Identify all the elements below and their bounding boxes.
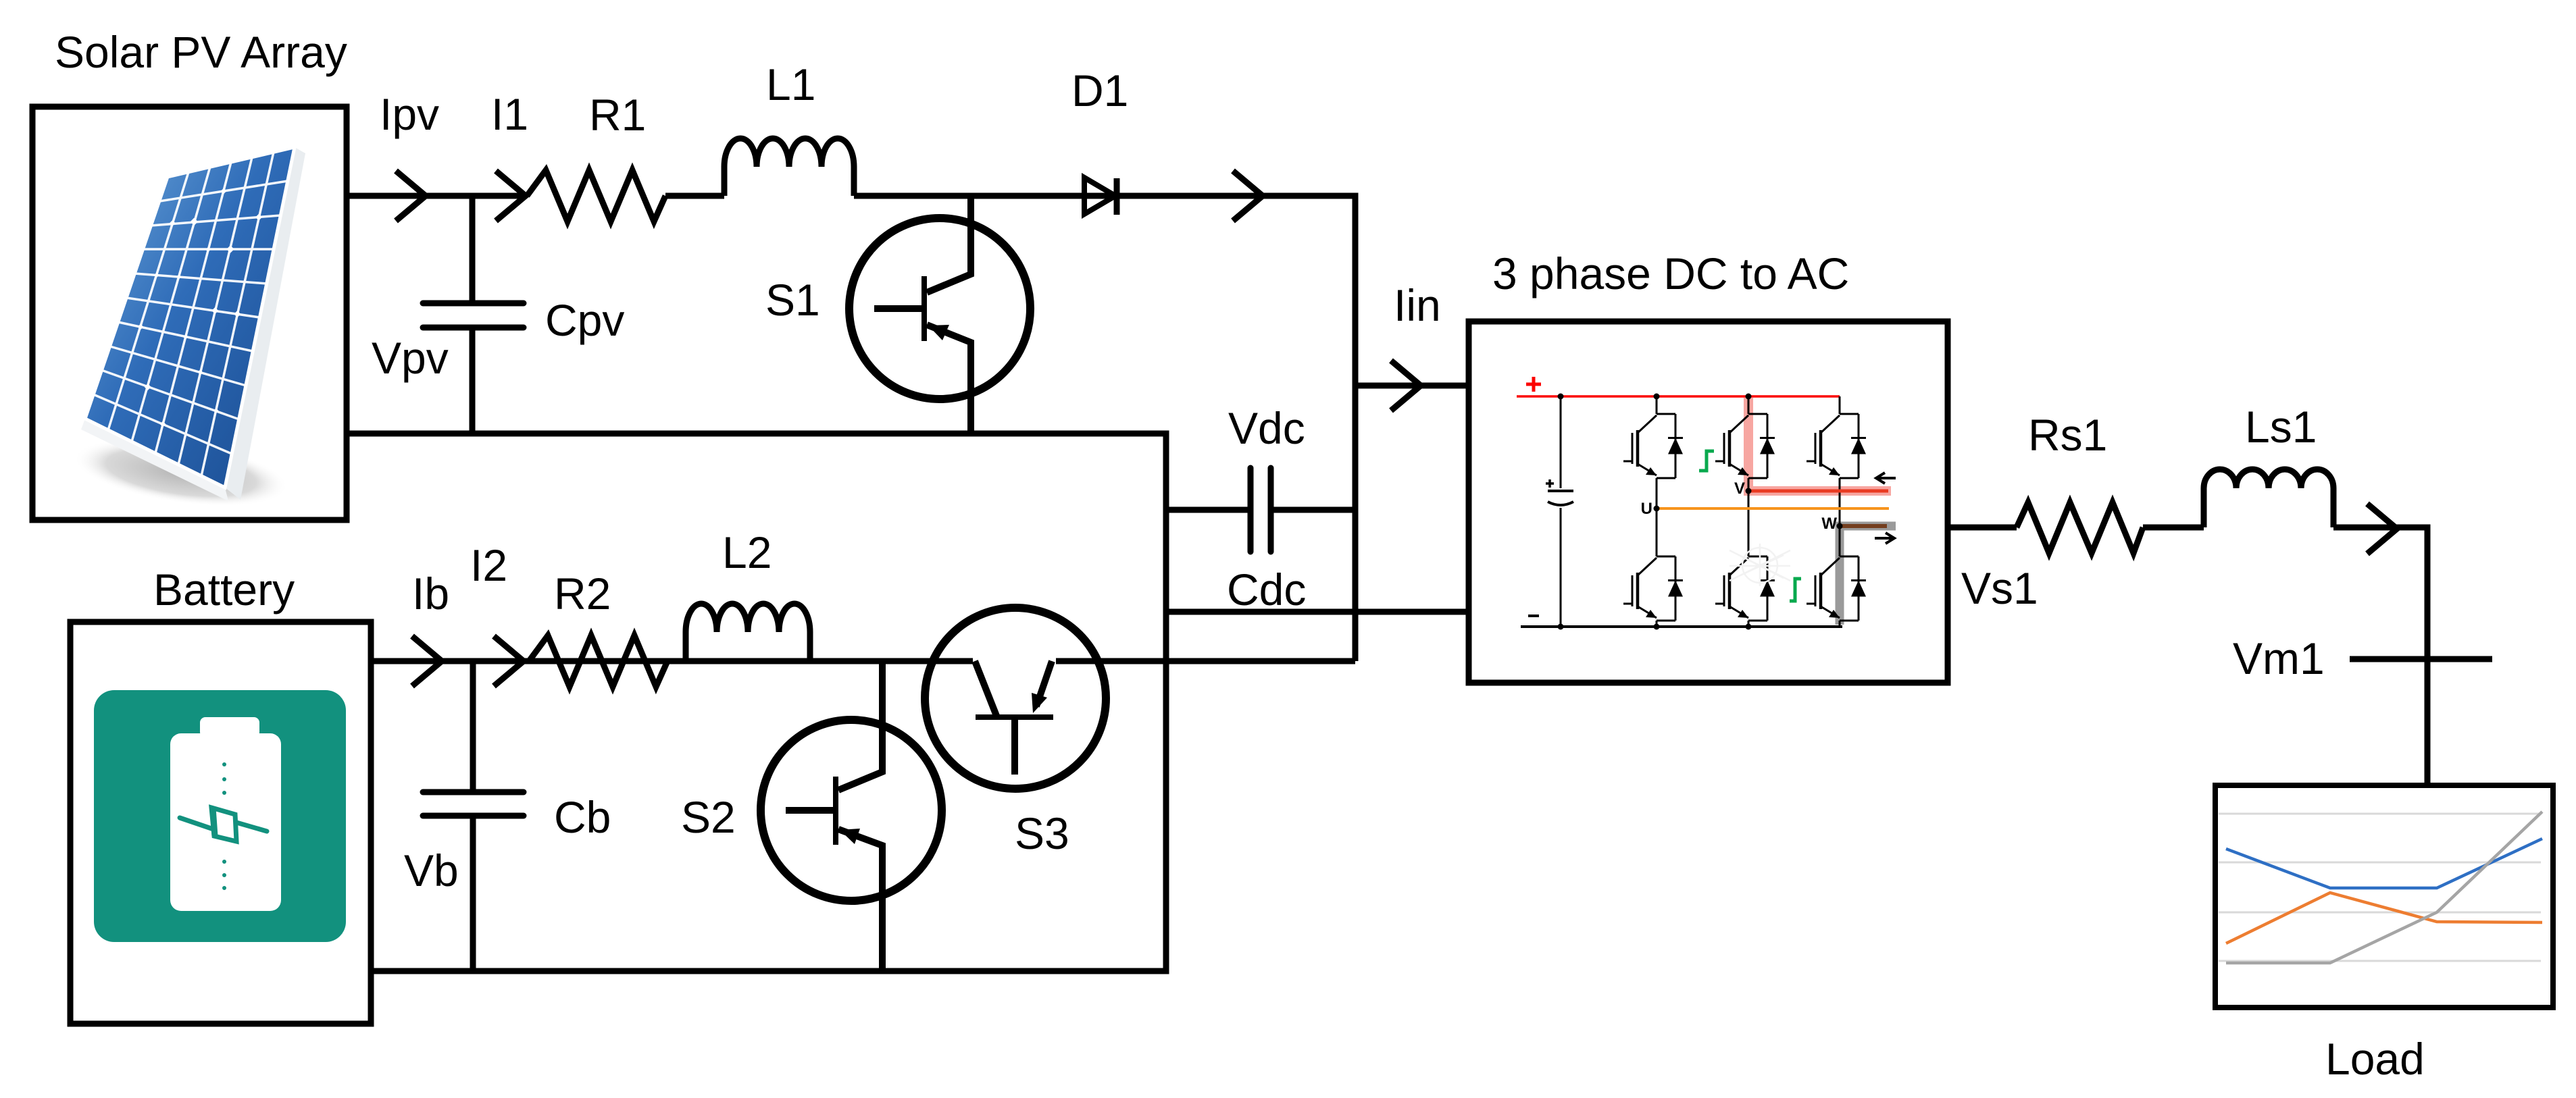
resistor R1 — [527, 170, 665, 221]
capacitor Cdc plates — [1251, 468, 1271, 552]
wire: dc negative to inverter — [1166, 609, 1466, 615]
arrow after D1 — [1233, 171, 1263, 221]
arrow Ib — [412, 636, 442, 686]
wire Rs1 to Ls1 — [2143, 525, 2204, 531]
inverter: arrow in — [1876, 473, 1896, 483]
resistor R2 — [529, 635, 667, 687]
svg-text:Vm1: Vm1 — [2233, 633, 2325, 683]
svg-text:L1: L1 — [766, 59, 815, 109]
wire: inverter output to Rs1 — [1949, 525, 2017, 531]
solar panel photo — [70, 147, 305, 518]
inverter: node dots — [1558, 394, 1843, 630]
arrow Iin — [1391, 361, 1421, 411]
inductor L2 — [686, 604, 810, 661]
svg-text:D1: D1 — [1071, 66, 1128, 115]
Solar PV Array box — [32, 107, 347, 520]
svg-text:Cdc: Cdc — [1227, 565, 1306, 615]
svg-text:S2: S2 — [681, 792, 736, 842]
capacitor Cpv — [470, 196, 476, 300]
resistor Rs1 — [2017, 502, 2143, 553]
inverter: W phase line — [1840, 524, 1887, 528]
svg-text:Vpv: Vpv — [372, 333, 449, 383]
svg-text:Rs1: Rs1 — [2028, 410, 2107, 460]
svg-text:I2: I2 — [470, 540, 507, 590]
svg-text:Solar PV Array: Solar PV Array — [55, 27, 347, 77]
inverter: plus sign — [1526, 377, 1541, 392]
Battery box — [70, 622, 371, 1024]
load chart orange line — [2226, 893, 2542, 943]
diode D1 — [1084, 178, 1115, 214]
transistor S1 — [849, 196, 1030, 434]
bus: PV bottom / S1 emitter rail — [345, 434, 1166, 971]
svg-text:Cpv: Cpv — [545, 295, 624, 345]
inverter: arrow out — [1875, 533, 1894, 544]
wire: PV top output — [345, 193, 527, 199]
inverter: IGBT modules — [1657, 414, 1675, 478]
wire: S3 to dc corner — [1056, 658, 1355, 664]
load chart gridlines — [2219, 814, 2541, 961]
svg-text:Vs1: Vs1 — [1961, 563, 2038, 613]
svg-text:W: W — [1821, 515, 1837, 533]
svg-text:Vdc: Vdc — [1228, 403, 1305, 453]
inverter: V-phase pink highlight — [1748, 398, 1891, 491]
arrow I2 — [494, 636, 524, 686]
svg-text:L2: L2 — [722, 527, 772, 577]
svg-text:S1: S1 — [765, 275, 820, 325]
arrow I1 — [496, 171, 526, 221]
inverter: faint watermark — [1729, 544, 1790, 586]
svg-text:R1: R1 — [589, 90, 646, 140]
svg-text:S3: S3 — [1015, 808, 1069, 858]
svg-text:Ib: Ib — [412, 569, 449, 619]
inverter: red positive rail — [1517, 395, 1840, 398]
transistor S2 — [761, 661, 942, 971]
wire Ls1 to load — [2333, 527, 2427, 785]
capacitor Cb — [470, 661, 476, 789]
svg-text:Ipv: Ipv — [380, 89, 439, 139]
load chart gray line — [2226, 812, 2542, 963]
svg-text:Battery: Battery — [153, 565, 295, 615]
svg-text:Vb: Vb — [404, 845, 459, 895]
wire: Iin to inverter — [1355, 383, 1466, 389]
inverter: V phase line — [1748, 490, 1888, 493]
svg-text:U: U — [1641, 500, 1652, 518]
inverter: legs — [1656, 396, 1658, 627]
load chart blue line — [2226, 839, 2542, 888]
inverter: minus sign — [1528, 615, 1539, 617]
svg-text:I1: I1 — [491, 89, 528, 139]
wire R1 to L1 — [665, 193, 724, 199]
inverter: bottom rail — [1521, 625, 1842, 628]
Vm1 measure line — [2350, 656, 2492, 662]
transistor S3 — [925, 608, 1106, 789]
svg-text:Cb: Cb — [554, 792, 611, 842]
svg-text:V: V — [1734, 479, 1745, 498]
wire: battery output — [371, 658, 973, 664]
arrow to load — [2367, 504, 2397, 554]
wire L1 to corner, down to battery bus — [854, 196, 1355, 661]
svg-text:3 phase DC to AC: 3 phase DC to AC — [1492, 249, 1849, 298]
svg-text:Ls1: Ls1 — [2245, 402, 2317, 452]
battery icon — [94, 690, 346, 942]
inverter: green gate pulses — [1699, 451, 1714, 471]
inductor Ls1 — [2204, 469, 2333, 527]
inverter: dc link capacitor — [1560, 396, 1562, 627]
inverter: W-phase gray highlight — [1840, 526, 1896, 625]
capacitor Cdc wires — [1166, 507, 1355, 513]
arrow Ipv — [396, 171, 426, 221]
inverter: U phase line — [1657, 507, 1889, 510]
svg-text:R2: R2 — [554, 569, 611, 619]
inductor L1 — [724, 138, 854, 196]
svg-text:Iin: Iin — [1394, 280, 1441, 330]
svg-text:Load: Load — [2325, 1034, 2425, 1084]
inverter box — [1469, 321, 1948, 683]
Load box — [2215, 785, 2553, 1008]
